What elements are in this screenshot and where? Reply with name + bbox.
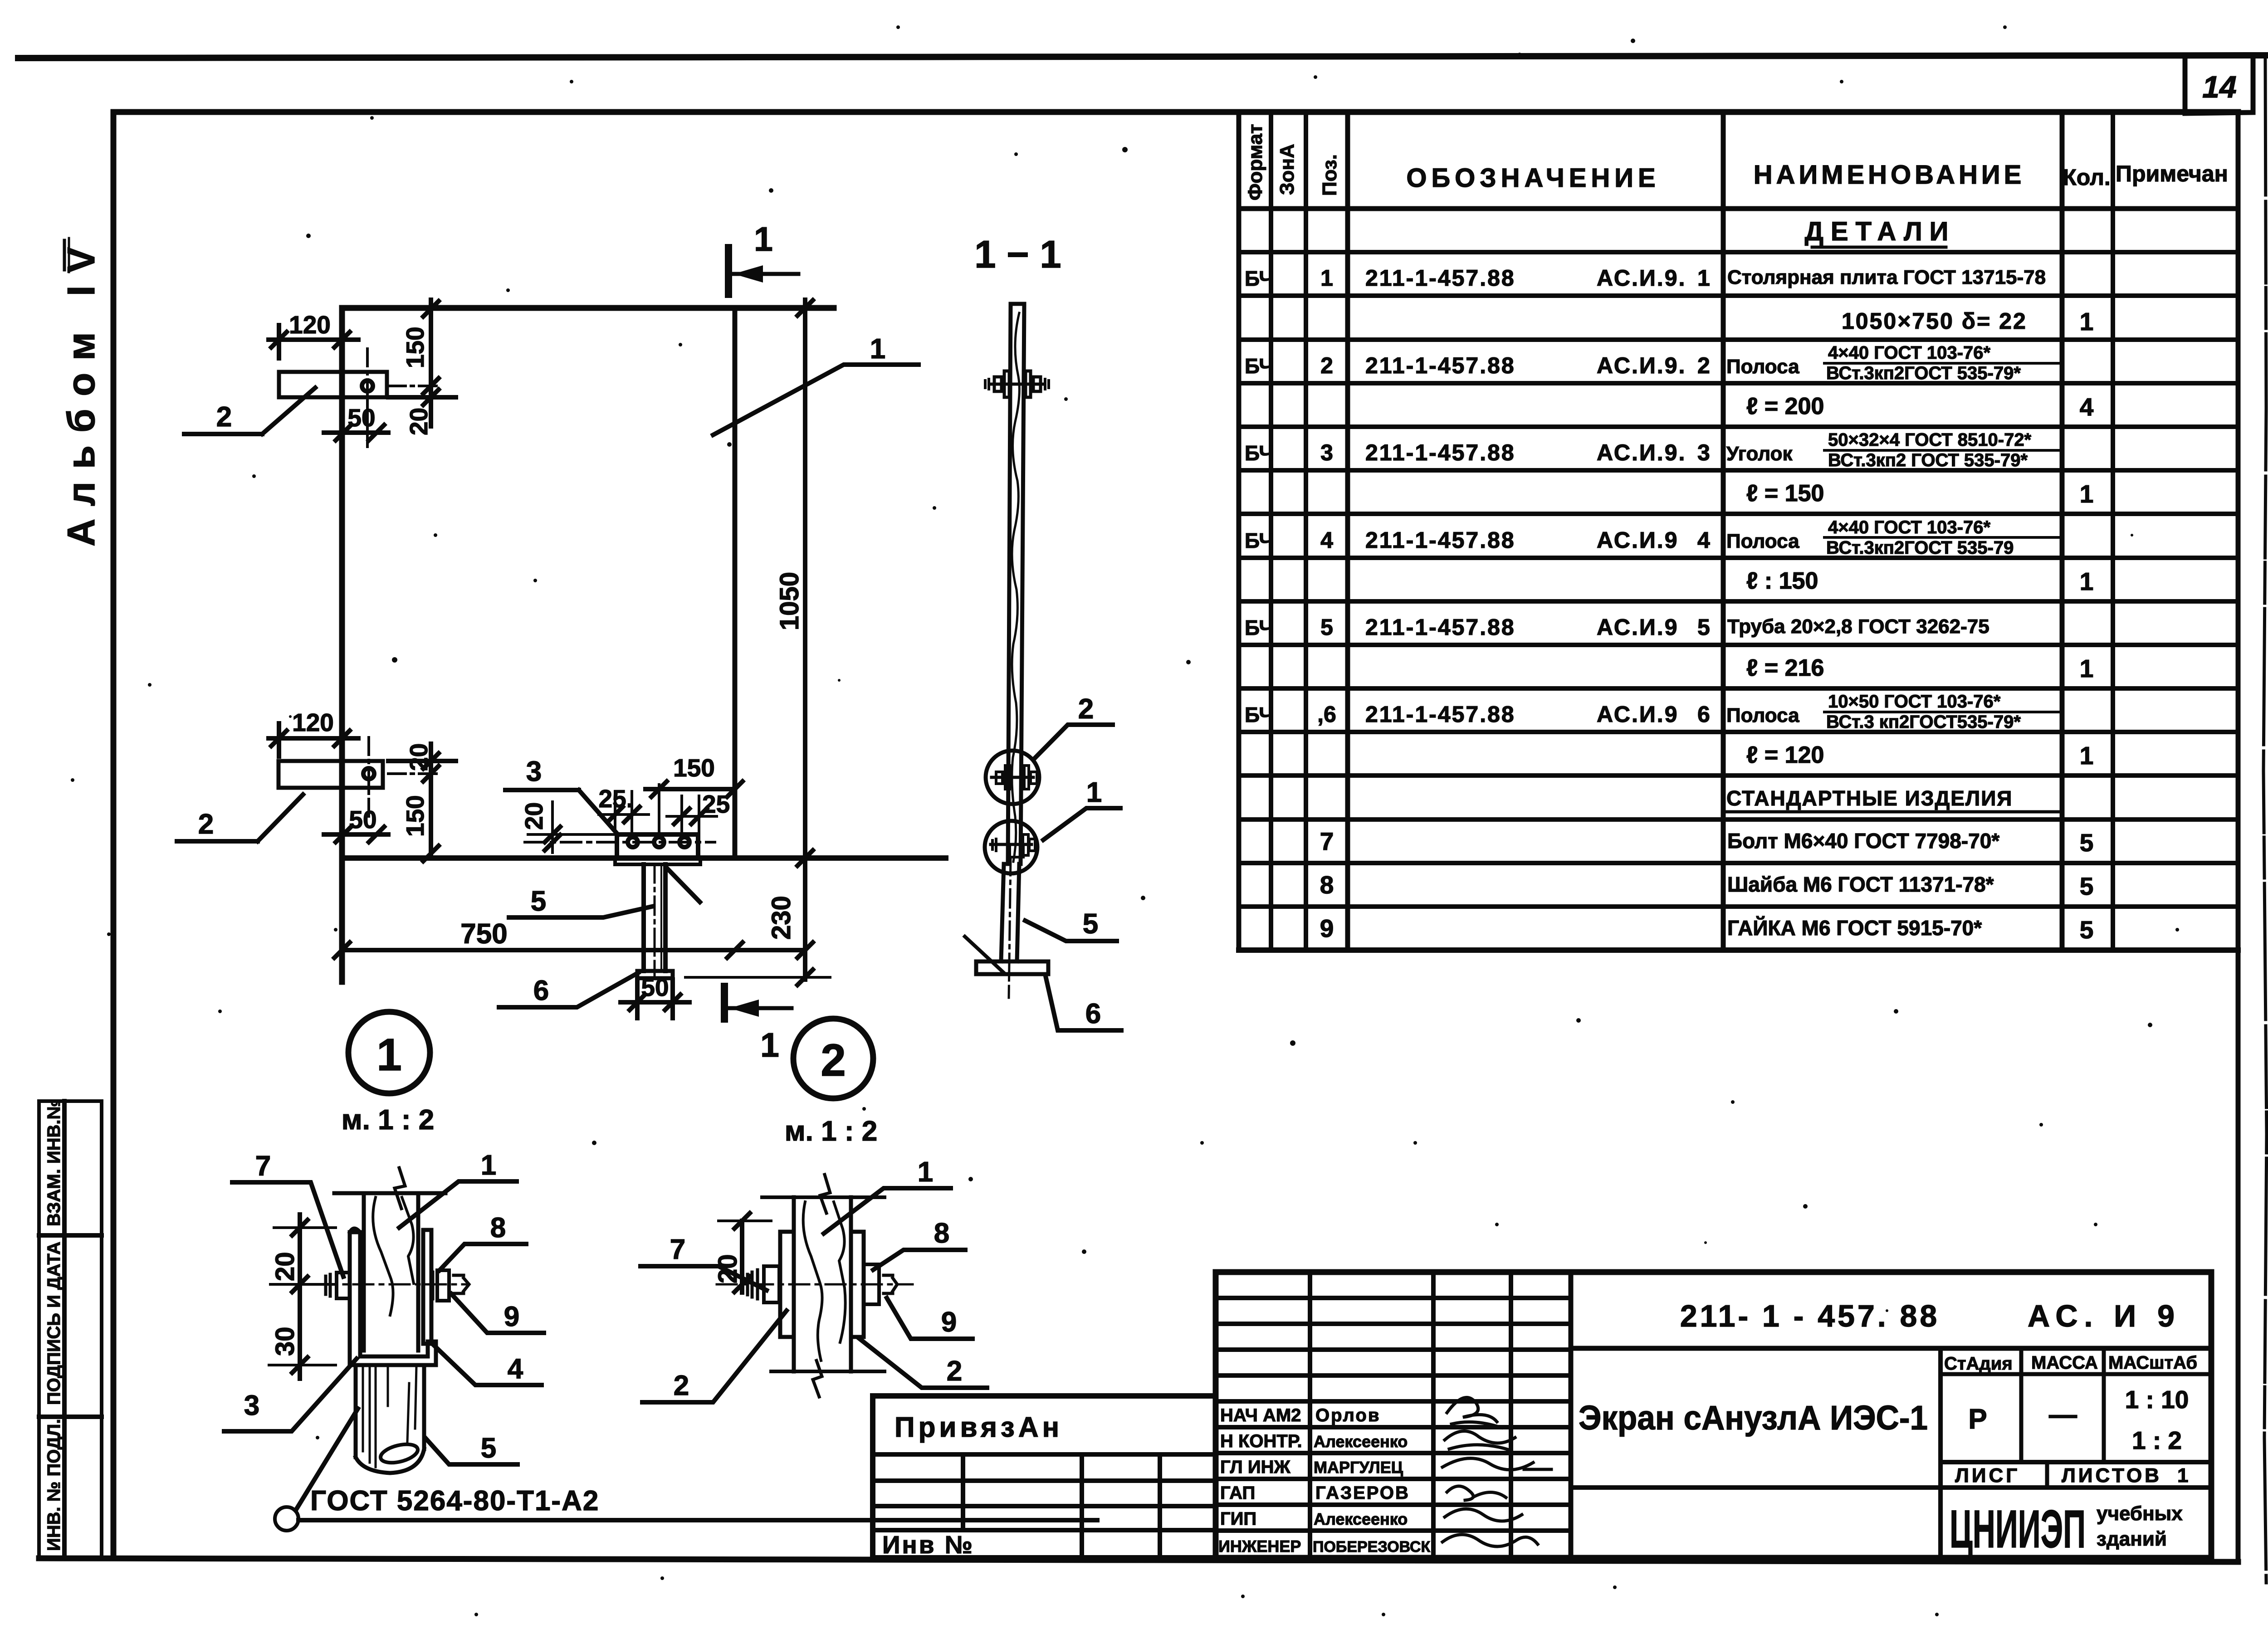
detail 2 scale label: [785, 1116, 877, 1147]
svg-text:8: 8: [1320, 871, 1334, 899]
svg-text:1: 1: [1086, 777, 1102, 808]
svg-text:5: 5: [531, 886, 546, 917]
svg-text:ЗонА: ЗонА: [1276, 144, 1298, 195]
svg-text:БЧ: БЧ: [1245, 441, 1274, 465]
svg-text:ГЛ ИНЖ: ГЛ ИНЖ: [1220, 1457, 1290, 1477]
svg-text:6: 6: [1085, 998, 1101, 1029]
svg-text:АС.И.9: АС.И.9: [1597, 615, 1679, 640]
detail 1 angle item 3: [350, 1229, 436, 1366]
svg-text:НАЧ АМ2: НАЧ АМ2: [1220, 1405, 1301, 1425]
dimension 20 (bottom bracket): [388, 744, 456, 782]
svg-text:9: 9: [504, 1301, 519, 1332]
dimension 150 (top bracket): [388, 300, 456, 397]
left strip label: ИНВ. № ПОДЛ.: [44, 1419, 64, 1551]
svg-text:ГОСТ 5264-80-Т1-А2: ГОСТ 5264-80-Т1-А2: [310, 1485, 599, 1517]
svg-text:м. 1 : 2: м. 1 : 2: [785, 1116, 877, 1147]
svg-text:211-1-457.88: 211-1-457.88: [1365, 527, 1515, 553]
svg-text:АС.И.9: АС.И.9: [1597, 527, 1679, 553]
svg-text:Поз.: Поз.: [1319, 154, 1341, 196]
tube item 5 (front): [644, 864, 665, 984]
svg-text:1: 1: [870, 333, 885, 365]
detail 2 leader 8: [873, 1250, 965, 1270]
svg-text:Экран сАнузлА ИЭС-1: Экран сАнузлА ИЭС-1: [1579, 1399, 1928, 1437]
detail 2 straps item 2: [780, 1232, 864, 1337]
svg-text:АС.И.9: АС.И.9: [1597, 702, 1679, 727]
detail 2 wood panel: [762, 1175, 885, 1397]
svg-text:2: 2: [1078, 693, 1094, 725]
svg-text:Полоса: Полоса: [1726, 530, 1799, 552]
svg-text:ПОБЕРЕЗОВСК: ПОБЕРЕЗОВСК: [1313, 1538, 1430, 1556]
dimension 150 (foot plate): [645, 771, 743, 834]
title block stage/mass/scale grid: [1571, 1348, 2211, 1558]
detail 1 scale label: [342, 1104, 434, 1136]
svg-text:5: 5: [1320, 615, 1333, 640]
svg-text:МАСштАб: МАСштАб: [2108, 1353, 2197, 1373]
svg-text:МАССА: МАССА: [2031, 1353, 2098, 1373]
svg-text:211-1-457.88: 211-1-457.88: [1365, 440, 1515, 465]
page number box: [2185, 57, 2253, 113]
staff labels: [1218, 1405, 1302, 1556]
outer right sheet edge line: [2263, 59, 2267, 1583]
svg-text:,6: ,6: [1317, 702, 1336, 727]
detail circle mark 1 (section): [985, 821, 1037, 873]
dimension 20 (foot plate): [528, 802, 617, 853]
detail 2 leader 2 right: [860, 1339, 987, 1388]
leader 2 (bottom bracket): [177, 795, 303, 841]
svg-text:50: 50: [349, 805, 376, 834]
detail 1 leader 1: [399, 1181, 517, 1228]
svg-text:Алексеенко: Алексеенко: [1314, 1432, 1408, 1451]
leader 1 (section): [1043, 808, 1120, 840]
svg-text:10×50 ГОСТ 103-76*: 10×50 ГОСТ 103-76*: [1828, 692, 2001, 712]
svg-text:6: 6: [1697, 702, 1710, 727]
svg-text:1: 1: [2080, 654, 2094, 683]
svg-text:1: 1: [760, 1026, 779, 1064]
svg-text:1: 1: [2080, 741, 2094, 770]
leader 1 (panel front): [713, 365, 919, 435]
svg-text:3: 3: [1697, 440, 1710, 465]
leader 5 (section): [1025, 921, 1117, 941]
dimension 20 (top bracket): [423, 386, 439, 426]
svg-text:2: 2: [1697, 353, 1710, 378]
base plate (section): [965, 937, 1048, 974]
weld designation: [275, 1409, 1097, 1531]
svg-text:2: 2: [216, 401, 232, 433]
base plate item 6 (front): [637, 971, 673, 978]
svg-text:3: 3: [526, 756, 542, 787]
svg-text:2: 2: [821, 1035, 846, 1086]
svg-text:ГАП: ГАП: [1220, 1483, 1255, 1503]
svg-text:1: 1: [2080, 307, 2094, 336]
svg-text:3: 3: [244, 1390, 259, 1421]
svg-text:Кол.: Кол.: [2063, 165, 2110, 190]
detail 2 leader 9: [887, 1298, 973, 1339]
leader 5 (front): [509, 907, 652, 917]
svg-text:м. 1 : 2: м. 1 : 2: [342, 1104, 434, 1136]
stage/mass/scale values: [1968, 1385, 2189, 1454]
svg-text:ВСт.3 кп2ГОСТ535-79*: ВСт.3 кп2ГОСТ535-79*: [1826, 712, 2021, 732]
detail 2 leader 1: [824, 1188, 951, 1234]
svg-text:учебных: учебных: [2097, 1502, 2183, 1525]
detail 1 dimension 30: [269, 1297, 336, 1379]
dimension 50 (base plate): [621, 980, 689, 1018]
leader 2 (top bracket): [184, 388, 315, 434]
section cut mark bottom: [724, 986, 792, 1019]
svg-text:ГИП: ГИП: [1220, 1509, 1256, 1529]
left strip label: ВЗАМ. ИНВ. №: [44, 1099, 64, 1226]
svg-text:Н КОНТР.: Н КОНТР.: [1220, 1431, 1302, 1451]
title text: [1579, 1399, 1928, 1437]
svg-text:1 : 2: 1 : 2: [2132, 1426, 2182, 1454]
svg-text:1: 1: [2080, 480, 2094, 508]
svg-text:211- 1 - 457. 88: 211- 1 - 457. 88: [1680, 1299, 1940, 1333]
svg-text:50: 50: [347, 404, 375, 432]
svg-text:2: 2: [1320, 353, 1333, 378]
weld leader line (foot): [667, 868, 700, 902]
dimension 50 (top bracket): [324, 395, 388, 447]
top bolt assembly (section): [985, 371, 1049, 397]
detail 1 leader 3: [224, 1359, 357, 1431]
svg-text:120: 120: [292, 708, 334, 737]
svg-text:АС.И.9.: АС.И.9.: [1597, 265, 1686, 291]
leader 6 (section): [1046, 976, 1121, 1030]
dimension 230: [685, 976, 830, 979]
svg-text:1: 1: [481, 1150, 496, 1181]
svg-text:1: 1: [2177, 1464, 2188, 1487]
svg-text:20: 20: [520, 802, 548, 830]
svg-text:ℓ = 150: ℓ = 150: [1746, 480, 1824, 507]
privyazan table grid: [873, 1396, 1216, 1558]
svg-text:1: 1: [376, 1029, 402, 1080]
svg-text:50×32×4 ГОСТ 8510-72*: 50×32×4 ГОСТ 8510-72*: [1828, 430, 2032, 450]
svg-text:БЧ: БЧ: [1245, 267, 1274, 290]
signature scribbles: [1442, 1397, 1551, 1546]
svg-text:1 − 1: 1 − 1: [974, 233, 1061, 276]
detail 2 leader 2 left: [642, 1311, 787, 1402]
list row: [1955, 1464, 2188, 1487]
dimension 25 right (foot plate): [667, 796, 717, 832]
svg-text:6: 6: [533, 975, 549, 1006]
svg-text:Полоса: Полоса: [1726, 356, 1799, 378]
dimension 750: [334, 942, 805, 958]
svg-text:7: 7: [1320, 827, 1334, 855]
svg-text:9: 9: [1320, 914, 1334, 942]
title block doc number row: [1571, 1346, 2211, 1351]
svg-text:НАИМЕНОВАНИЕ: НАИМЕНОВАНИЕ: [1754, 160, 2025, 190]
svg-text:ℓ = 200: ℓ = 200: [1746, 393, 1824, 419]
svg-text:Уголок: Уголок: [1726, 443, 1793, 465]
svg-text:ИНВ. № ПОДЛ.: ИНВ. № ПОДЛ.: [44, 1419, 64, 1551]
svg-text:ИНЖЕНЕР: ИНЖЕНЕР: [1218, 1537, 1301, 1556]
svg-text:7: 7: [670, 1234, 685, 1265]
detail circle mark 2 (section): [986, 751, 1039, 804]
parts table headers: [1244, 124, 2228, 200]
svg-text:8: 8: [934, 1218, 949, 1249]
svg-text:ПривязАн: ПривязАн: [894, 1412, 1063, 1443]
panel item 1 outline: [342, 308, 946, 982]
svg-text:8: 8: [490, 1212, 506, 1244]
svg-text:АС. И 9: АС. И 9: [2028, 1299, 2181, 1333]
sheet top border line: [18, 55, 2265, 58]
svg-text:2: 2: [947, 1356, 962, 1387]
page number 14: [2202, 70, 2237, 104]
svg-text:Труба 20×2,8 ГОСТ 3262-75: Труба 20×2,8 ГОСТ 3262-75: [1727, 615, 1989, 638]
svg-text:БЧ: БЧ: [1245, 616, 1274, 639]
svg-text:1: 1: [1697, 265, 1710, 291]
dimension 150 (bottom bracket): [423, 774, 439, 861]
svg-text:ℓ = 120: ℓ = 120: [1746, 742, 1824, 768]
foot plate item 3: [525, 834, 715, 864]
svg-text:СтАдия: СтАдия: [1944, 1354, 2013, 1374]
svg-text:5: 5: [2080, 916, 2094, 944]
parts table rows text: [1245, 217, 2094, 944]
detail 2 dimension 20: [719, 1213, 771, 1293]
parts table grid: [1239, 112, 2238, 950]
svg-text:150: 150: [401, 795, 429, 837]
svg-text:4×40 ГОСТ 103-76*: 4×40 ГОСТ 103-76*: [1828, 343, 1990, 363]
svg-text:14: 14: [2202, 70, 2237, 104]
svg-text:ЛИСГ: ЛИСГ: [1955, 1464, 2020, 1487]
svg-text:1: 1: [2080, 567, 2094, 595]
detail 2 leader 7: [640, 1266, 767, 1290]
logo TSNIIEP: [1950, 1499, 2183, 1559]
detail 1 dimension 20: [270, 1215, 336, 1297]
top bracket item 2: [279, 349, 438, 431]
detail 2 callout circle: [793, 1019, 873, 1098]
svg-text:Р: Р: [1968, 1404, 1987, 1435]
svg-text:ПОДПИСЬ И ДАТА: ПОДПИСЬ И ДАТА: [44, 1242, 64, 1405]
svg-text:211-1-457.88: 211-1-457.88: [1365, 702, 1515, 727]
svg-text:211-1-457.88: 211-1-457.88: [1365, 265, 1515, 291]
svg-text:Шайба М6 ГОСТ 11371-78*: Шайба М6 ГОСТ 11371-78*: [1727, 873, 1994, 896]
svg-text:150: 150: [401, 327, 429, 368]
detail 1 wood panel: [334, 1168, 445, 1351]
svg-text:АС.И.9.: АС.И.9.: [1597, 440, 1686, 465]
svg-text:ℓ : 150: ℓ : 150: [1746, 568, 1818, 594]
dimension 50 (bottom bracket): [324, 827, 388, 842]
bottom bracket item 2: [279, 737, 438, 816]
leader 3 (front): [505, 790, 618, 835]
svg-text:Формат: Формат: [1244, 124, 1266, 200]
svg-text:20: 20: [405, 408, 433, 435]
svg-text:9: 9: [941, 1307, 957, 1338]
dimension 1050: [797, 300, 813, 985]
svg-text:БЧ: БЧ: [1245, 703, 1274, 727]
panel side view (section): [1008, 304, 1024, 864]
tube (section): [1001, 857, 1019, 998]
svg-text:1050: 1050: [775, 572, 804, 630]
svg-text:211-1-457.88: 211-1-457.88: [1365, 615, 1515, 640]
svg-text:20: 20: [405, 743, 433, 771]
svg-text:ВСт.3кп2 ГОСТ 535-79*: ВСт.3кп2 ГОСТ 535-79*: [1828, 450, 2028, 470]
parts table fraction and underline rules: [1725, 247, 2062, 812]
svg-text:ВСт.3кп2ГОСТ 535-79*: ВСт.3кп2ГОСТ 535-79*: [1826, 363, 2021, 383]
title block staff grid: [1216, 1272, 1571, 1558]
svg-text:5: 5: [2080, 829, 2094, 857]
svg-text:ВЗАМ. ИНВ.№: ВЗАМ. ИНВ.№: [44, 1099, 64, 1226]
detail 1 leader 8: [440, 1244, 526, 1270]
detail 2 bolt: [717, 1264, 913, 1304]
svg-text:зданий: зданий: [2097, 1528, 2167, 1550]
svg-text:Инв №: Инв №: [882, 1531, 974, 1559]
inv no label: [882, 1531, 974, 1559]
stage/mass/scale headers: [1944, 1353, 2197, 1374]
leader 2 (section): [1035, 725, 1113, 758]
svg-text:АС.И.9.: АС.И.9.: [1597, 353, 1686, 378]
detail 1 bolt: [281, 1270, 469, 1301]
svg-text:50: 50: [641, 973, 669, 1001]
svg-text:СТАНДАРТНЫЕ ИЗДЕЛИЯ: СТАНДАРТНЫЕ ИЗДЕЛИЯ: [1726, 786, 2013, 810]
svg-text:4: 4: [1697, 527, 1710, 553]
left strip label: ПОДПИСЬ И ДАТА: [44, 1242, 64, 1405]
svg-text:4: 4: [1320, 527, 1333, 553]
album IV label: [60, 247, 103, 546]
title block outer: [1216, 1272, 2211, 1558]
svg-text:1: 1: [754, 220, 773, 258]
svg-text:Орлов: Орлов: [1315, 1405, 1380, 1425]
svg-text:ЦНИИЭП: ЦНИИЭП: [1950, 1499, 2086, 1559]
detail 1 leader 9: [451, 1294, 544, 1333]
detail 1 leader 4: [432, 1344, 542, 1385]
staff names: [1313, 1405, 1430, 1556]
svg-text:7: 7: [255, 1151, 271, 1182]
left margin stamp strip: [39, 1101, 102, 1558]
svg-text:ДЕТАЛИ: ДЕТАЛИ: [1805, 217, 1956, 246]
svg-text:Примечан: Примечан: [2116, 161, 2228, 186]
svg-text:МАРГУЛЕЦ: МАРГУЛЕЦ: [1314, 1458, 1403, 1477]
privyazan label: [894, 1412, 1063, 1443]
svg-text:25.: 25.: [599, 785, 633, 813]
svg-text:ЛИСТОВ: ЛИСТОВ: [2062, 1464, 2162, 1487]
dimension 120 (top bracket): [269, 325, 358, 358]
svg-text:750: 750: [460, 918, 507, 950]
svg-text:ГАЙКА М6 ГОСТ 5915-70*: ГАЙКА М6 ГОСТ 5915-70*: [1727, 916, 1982, 940]
detail 1 leader 5: [425, 1438, 518, 1464]
svg-text:ОБОЗНАЧЕНИЕ: ОБОЗНАЧЕНИЕ: [1406, 163, 1660, 193]
svg-text:25: 25: [702, 790, 730, 818]
svg-text:20: 20: [270, 1252, 300, 1281]
svg-text:Болт М6×40 ГОСТ 7798-70*: Болт М6×40 ГОСТ 7798-70*: [1727, 829, 1999, 853]
svg-text:211-1-457.88: 211-1-457.88: [1365, 353, 1515, 378]
svg-text:150: 150: [673, 754, 715, 782]
svg-text:5: 5: [2080, 872, 2094, 900]
svg-text:—: —: [2049, 1399, 2077, 1430]
dimension 120 (bottom bracket): [269, 722, 358, 756]
detail 1 strap item 4: [423, 1230, 431, 1344]
svg-text:3: 3: [1320, 440, 1333, 465]
svg-text:1: 1: [1320, 265, 1333, 291]
svg-text:Полоса: Полоса: [1726, 704, 1799, 727]
svg-text:Алексеенко: Алексеенко: [1314, 1510, 1408, 1528]
svg-text:2: 2: [198, 809, 214, 840]
svg-text:БЧ: БЧ: [1245, 529, 1274, 552]
svg-text:1050×750 δ= 22: 1050×750 δ= 22: [1842, 308, 2027, 334]
svg-text:2: 2: [674, 1370, 689, 1401]
section title 1-1: [974, 233, 1061, 276]
detail 1 leader 7: [232, 1182, 343, 1277]
svg-text:4: 4: [508, 1353, 523, 1385]
svg-text:Столярная плита ГОСТ 13715-78: Столярная плита ГОСТ 13715-78: [1727, 266, 2046, 288]
svg-text:5: 5: [1697, 615, 1710, 640]
detail 1 callout circle: [348, 1012, 430, 1093]
svg-text:ℓ = 216: ℓ = 216: [1746, 655, 1824, 681]
svg-text:1 : 10: 1 : 10: [2125, 1385, 2189, 1414]
svg-text:1: 1: [918, 1156, 933, 1188]
leader 6 (front): [499, 973, 638, 1007]
svg-text:120: 120: [289, 311, 331, 339]
svg-text:БЧ: БЧ: [1245, 354, 1274, 378]
dimension 25 left (foot plate): [599, 791, 649, 832]
detail 1 tube item 5: [356, 1365, 424, 1473]
svg-text:4: 4: [2080, 393, 2094, 421]
svg-text:ГАЗЕРОВ: ГАЗЕРОВ: [1315, 1483, 1410, 1503]
svg-text:4×40 ГОСТ 103-76*: 4×40 ГОСТ 103-76*: [1828, 517, 1990, 537]
svg-text:5: 5: [481, 1433, 496, 1464]
svg-text:ВСт.3кп2ГОСТ 535-79: ВСт.3кп2ГОСТ 535-79: [1826, 538, 2014, 558]
svg-text:230: 230: [767, 896, 796, 940]
svg-text:30: 30: [270, 1327, 300, 1356]
section cut mark top: [728, 248, 798, 294]
svg-text:5: 5: [1083, 908, 1098, 940]
